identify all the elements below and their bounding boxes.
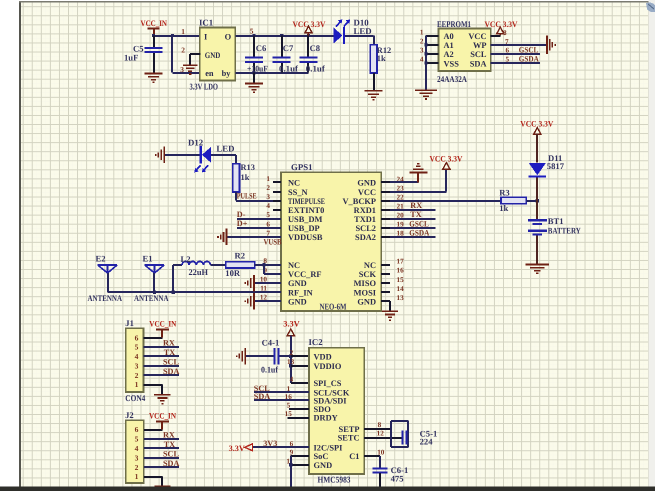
svg-text:USB_DP: USB_DP <box>288 224 320 233</box>
wire VUSB to GPS pin 7 <box>228 236 282 238</box>
svg-text:VCC_IN: VCC_IN <box>149 411 176 420</box>
ground below battery <box>526 264 550 275</box>
wire IC2 SoC pin 9 <box>291 456 309 487</box>
svg-text:GSDA: GSDA <box>519 55 539 64</box>
svg-text:GSDA: GSDA <box>409 228 429 237</box>
ground below GPS pin 13 <box>382 310 398 321</box>
svg-text:VUSB: VUSB <box>264 238 282 247</box>
regulator IC1 3.3V LDO <box>190 18 236 92</box>
capacitor C8 <box>300 36 325 74</box>
pin number 18 (GPS) <box>397 230 405 238</box>
GPS left pin stubs 1-7 <box>273 182 281 237</box>
svg-text:SS_N: SS_N <box>288 188 308 197</box>
svg-text:SDA: SDA <box>163 459 179 468</box>
svg-text:3: 3 <box>180 65 184 74</box>
svg-text:NEO-6M: NEO-6M <box>320 302 348 312</box>
svg-text:VCC_IN: VCC_IN <box>141 19 168 28</box>
net label D+ and wire to GPS pin 6 <box>237 219 281 228</box>
ground at GPS pin 10 (sideways) <box>245 275 282 292</box>
pin number 1 (EEPROM) <box>420 28 424 36</box>
svg-text:15: 15 <box>285 410 293 418</box>
ground below R12 <box>365 90 383 101</box>
svg-text:475: 475 <box>391 474 404 484</box>
pin number 3 (IC1) <box>180 65 184 74</box>
wire R3 to battery node <box>526 199 539 202</box>
ground left of LED D12 (sideways) <box>155 147 165 164</box>
svg-text:IC1: IC1 <box>199 18 213 28</box>
wire EEPROM VCC pin 8 <box>491 35 501 37</box>
wire D10 cathode to R12 <box>345 36 374 45</box>
svg-text:RX: RX <box>163 339 175 348</box>
pin number 1 (GPS) <box>266 175 270 183</box>
wire branch down to IC1 pin 3 (en) <box>171 34 201 73</box>
svg-text:PULSE: PULSE <box>237 191 257 200</box>
svg-text:+10uF: +10uF <box>247 64 268 74</box>
pin number 7 (GPS) <box>266 229 270 237</box>
pin number 14 (GPS) <box>397 285 405 293</box>
svg-text:TX: TX <box>164 348 175 357</box>
wire L2 branch down to RF rail <box>172 265 174 292</box>
svg-text:ANTENNA: ANTENNA <box>88 293 123 303</box>
pin number 24 (GPS) <box>397 175 405 183</box>
svg-text:E1: E1 <box>143 253 153 263</box>
svg-text:D-: D- <box>237 210 246 219</box>
svg-text:WP: WP <box>473 41 487 50</box>
svg-text:LED: LED <box>354 26 372 36</box>
svg-text:SDO: SDO <box>314 405 332 414</box>
pin number 2 (GPS) <box>266 184 270 192</box>
pin number 2 (IC2 VDD) <box>290 349 294 357</box>
svg-text:1uF: 1uF <box>124 52 138 62</box>
svg-text:7: 7 <box>505 38 509 46</box>
GPS module U: GPS1 NEO-6M <box>281 162 381 311</box>
svg-text:17: 17 <box>397 258 405 266</box>
power symbol VCC_IN (J2) <box>149 411 176 429</box>
wire IC1 output rail to LED D10 <box>235 35 333 37</box>
wire IC2 C1 pin 10 <box>364 456 380 468</box>
wire EEPROM WP pin 7 <box>491 44 546 46</box>
svg-text:C8: C8 <box>310 43 321 53</box>
svg-text:3V3: 3V3 <box>263 439 277 448</box>
svg-text:RX: RX <box>163 431 175 440</box>
svg-text:22uH: 22uH <box>189 267 209 277</box>
pin 2 stub of IC1 to ground <box>190 54 201 64</box>
ground below C5 <box>145 73 163 84</box>
svg-text:SoC: SoC <box>314 452 329 461</box>
GPS right pin stubs 24-18 <box>381 182 390 237</box>
connector J1 CON4 <box>125 318 145 403</box>
svg-text:GND: GND <box>314 461 333 470</box>
net label TX and wire (GPS pin 20) <box>390 210 436 219</box>
wire D11 to battery node <box>536 177 538 219</box>
svg-text:VSS: VSS <box>444 59 460 68</box>
GPS right pin stubs 17-13 <box>381 265 390 301</box>
wire GPS pin 22 V_BCKP to R3 <box>390 200 501 202</box>
wire ground to C4-1 <box>246 355 273 357</box>
svg-text:5: 5 <box>506 56 510 64</box>
svg-text:3: 3 <box>420 47 424 55</box>
pin stub DRDY <box>288 417 309 419</box>
net label VUSB <box>264 238 282 247</box>
wire 3.3V to VDDIO pin <box>291 365 309 367</box>
svg-text:VCC: VCC <box>468 32 486 41</box>
net label TX and wire (J1) <box>144 348 179 357</box>
svg-text:C4-1: C4-1 <box>262 337 280 347</box>
svg-text:6: 6 <box>506 46 510 54</box>
svg-text:10R: 10R <box>225 268 241 278</box>
svg-text:1: 1 <box>266 175 270 183</box>
svg-text:MISO: MISO <box>354 279 377 288</box>
pin number 13 (IC2 VDDIO) <box>287 358 295 366</box>
pin number 22 (GPS) <box>397 193 405 201</box>
svg-text:4: 4 <box>135 352 139 361</box>
svg-text:VCC_IN: VCC_IN <box>149 319 176 328</box>
svg-text:10: 10 <box>377 449 385 457</box>
svg-text:DRDY: DRDY <box>314 414 338 423</box>
svg-text:2: 2 <box>181 46 185 55</box>
pin number 3 (GPS) <box>266 193 270 201</box>
junction C7 top <box>280 34 283 37</box>
pin number 5 (IC1 output) <box>250 27 254 36</box>
pin number 8 (GPS) <box>263 257 267 265</box>
svg-text:C1: C1 <box>349 452 359 461</box>
pin number 16 (GPS) <box>397 267 405 275</box>
wire loop around C5-1 <box>391 421 408 447</box>
svg-text:SCL: SCL <box>163 357 179 366</box>
label ANTENNA (E2) <box>88 293 123 303</box>
ground left of C4-1 (sideways) <box>236 348 246 365</box>
EEPROM left pin stubs <box>426 36 439 63</box>
svg-text:1k: 1k <box>241 173 250 182</box>
svg-text:3: 3 <box>266 193 270 201</box>
svg-text:SCK: SCK <box>359 270 377 279</box>
pin number 5 (IC2 SDO) <box>287 401 291 409</box>
pin number 6 (IC2 I2C/SPI) <box>290 440 294 448</box>
pin number 19 (GPS) <box>397 221 405 229</box>
net label SDA and wire (J1) <box>144 367 180 376</box>
capacitor C5 <box>124 36 163 73</box>
svg-text:4: 4 <box>266 202 270 210</box>
svg-text:GND: GND <box>288 297 307 306</box>
svg-text:CON4: CON4 <box>125 393 145 403</box>
svg-text:BATTERY: BATTERY <box>548 225 582 235</box>
sheet border top <box>19 1 649 2</box>
svg-text:SPI_CS: SPI_CS <box>314 379 342 388</box>
LED D10 <box>334 17 372 43</box>
svg-text:SETP: SETP <box>339 425 360 434</box>
pin number 15 (GPS) <box>397 276 405 284</box>
svg-text:NC: NC <box>288 261 300 270</box>
capacitor C7 <box>273 36 299 74</box>
svg-text:3.3V LDO: 3.3V LDO <box>190 82 219 92</box>
svg-text:R13: R13 <box>241 163 255 172</box>
svg-text:GND: GND <box>288 279 307 288</box>
svg-text:SCL: SCL <box>470 50 487 59</box>
svg-text:TXD1: TXD1 <box>354 215 376 224</box>
pin number 21 (GPS) <box>397 203 405 211</box>
net label D- and wire to GPS pin 5 <box>237 210 281 219</box>
wire E2 to RF rail <box>107 273 109 292</box>
net label SDA and wire (J2) <box>144 459 180 468</box>
svg-text:224: 224 <box>420 437 434 447</box>
svg-text:TX: TX <box>410 210 421 219</box>
ground below J2 (clipped) <box>154 485 170 486</box>
pin number 3 (EEPROM) <box>420 47 424 55</box>
net label TX and wire (J2) <box>144 440 179 449</box>
svg-text:3: 3 <box>135 361 139 370</box>
svg-text:NC: NC <box>288 179 300 188</box>
wire VCC_IN rail to IC1 pin 1 <box>154 35 201 37</box>
svg-text:SETC: SETC <box>338 434 360 443</box>
svg-text:R2: R2 <box>235 250 246 260</box>
svg-text:R3: R3 <box>499 187 510 197</box>
svg-text:0.1uf: 0.1uf <box>306 64 325 74</box>
ground at GPS pin 12 (sideways) <box>245 293 282 310</box>
magnetometer U: IC2 HMC5983 <box>309 337 365 484</box>
net label GSDA and wire (GPS pin 18) <box>390 228 436 237</box>
junction C6 top <box>252 34 255 37</box>
svg-text:ANTENNA: ANTENNA <box>134 293 169 303</box>
pin number 15 (IC2 DRDY) <box>285 410 293 418</box>
junction IC2 VDDIO <box>289 364 292 367</box>
svg-text:3.3V: 3.3V <box>283 319 300 328</box>
wire IC2 SETP pin 8 <box>364 428 391 430</box>
svg-text:2: 2 <box>135 463 139 472</box>
svg-text:2: 2 <box>420 38 424 46</box>
power symbol VCC_IN <box>141 19 168 35</box>
power symbol VCC_3.3V (battery) <box>520 119 553 162</box>
net label SDA and wire (IC2) <box>254 392 309 401</box>
svg-text:TIMEPULSE: TIMEPULSE <box>288 197 325 206</box>
power symbol 3.3V (IC2) <box>283 319 300 382</box>
svg-text:1: 1 <box>135 380 139 389</box>
J2 pin stubs <box>144 430 163 477</box>
svg-text:16: 16 <box>397 267 405 275</box>
pin number 9 (GPS) <box>263 266 267 274</box>
junction IC2 VDD <box>289 355 292 358</box>
wire R12 to ground <box>373 73 375 90</box>
svg-text:VCC_RF: VCC_RF <box>288 270 322 279</box>
svg-text:EEPROM1: EEPROM1 <box>437 19 471 29</box>
svg-text:J2: J2 <box>125 410 134 420</box>
svg-text:SCL: SCL <box>163 449 179 458</box>
svg-text:C7: C7 <box>283 43 294 53</box>
svg-text:IC2: IC2 <box>309 337 324 347</box>
svg-text:LED: LED <box>216 144 234 154</box>
svg-text:by: by <box>222 69 232 78</box>
svg-text:VCC: VCC <box>358 188 376 197</box>
svg-text:0.1uf: 0.1uf <box>261 365 278 375</box>
svg-text:GND: GND <box>357 179 376 188</box>
pin number 2 (IC1) <box>181 46 185 55</box>
svg-text:NC: NC <box>364 261 376 270</box>
bottom dark bar <box>0 487 655 491</box>
pin number 4 (IC2 SPI_CS) <box>290 375 294 383</box>
ground below C6 <box>245 73 263 94</box>
battery BT1 <box>528 216 582 235</box>
svg-text:L2: L2 <box>181 254 191 264</box>
wire 3.3V to SPI_CS pin <box>291 382 309 384</box>
svg-text:V_BCKP: V_BCKP <box>343 197 377 206</box>
net label SCL and wire (J1) <box>144 357 180 366</box>
svg-text:15: 15 <box>397 276 405 284</box>
svg-text:I: I <box>204 33 207 42</box>
svg-text:8: 8 <box>503 29 507 37</box>
wire EEPROM SDA pin 5 net GSDA <box>491 55 540 64</box>
pin number 7 (EEPROM) <box>505 38 509 46</box>
svg-text:GND: GND <box>357 297 376 306</box>
inverted ground above GPS pin 24 <box>409 163 427 174</box>
junction C8 top <box>307 34 310 37</box>
svg-text:1: 1 <box>181 27 185 36</box>
svg-text:3.3V: 3.3V <box>229 444 245 453</box>
svg-text:D+: D+ <box>237 219 248 228</box>
GPS left pin stubs 8-12 <box>273 265 281 301</box>
wire IC2 SETC pin 12 <box>364 437 402 439</box>
svg-text:1k: 1k <box>377 54 386 63</box>
RF rail wire to GPS pin 11 RF_IN <box>108 290 282 293</box>
EEPROM U: EEPROM1 24AA32A <box>437 19 491 84</box>
resistor R2 10R <box>225 250 254 278</box>
pin number 16 (IC2 SDA/SDI) <box>285 393 293 401</box>
svg-text:13: 13 <box>397 294 405 302</box>
svg-text:12: 12 <box>377 430 385 438</box>
label ANTENNA (E1) <box>134 293 169 303</box>
svg-text:1: 1 <box>420 28 424 36</box>
pin number 2 (EEPROM) <box>420 38 424 46</box>
svg-text:2: 2 <box>135 371 139 380</box>
svg-text:EXTINT0: EXTINT0 <box>288 206 324 215</box>
svg-text:8: 8 <box>378 421 382 429</box>
pin number 1 (IC1) <box>181 27 185 36</box>
pin number 8 (IC2 SETP) <box>378 421 382 429</box>
svg-text:5: 5 <box>135 435 139 444</box>
pin number 13 (GPS) <box>397 294 405 302</box>
ground below EEPROM bus <box>415 89 437 99</box>
ground at VUSB (sideways) <box>217 229 227 246</box>
svg-text:VDD: VDD <box>314 352 332 361</box>
svg-text:O: O <box>225 33 232 42</box>
ground at IC1 pin 2 <box>183 64 198 74</box>
resistor R13 <box>233 163 255 192</box>
svg-text:SDA: SDA <box>470 59 487 68</box>
pin number 20 (GPS) <box>397 212 405 220</box>
power symbol VCC_3.3V (EEPROM) <box>485 20 518 36</box>
pin number 11 (IC2 GND) <box>286 458 293 466</box>
svg-text:SDA2: SDA2 <box>355 233 376 242</box>
diode D11 5817 <box>529 153 565 177</box>
svg-text:SCL2: SCL2 <box>356 224 376 233</box>
wire R13 to GPS pin 3, net PULSE <box>236 191 281 201</box>
svg-text:MOSI: MOSI <box>354 288 376 297</box>
pin number 12 (GPS) <box>260 294 268 302</box>
wire EEPROM SCL pin 6 net GSCL <box>491 46 540 55</box>
svg-text:RXD1: RXD1 <box>354 206 376 215</box>
junction C6 bottom / ground drop <box>252 71 255 74</box>
svg-text:5: 5 <box>135 343 139 352</box>
resistor R12 <box>370 45 391 73</box>
ground at WP pin (sideways) <box>546 36 556 55</box>
antenna E1 <box>143 253 165 273</box>
svg-text:en: en <box>205 69 214 78</box>
ground below J1 <box>154 394 171 405</box>
svg-text:GSCL: GSCL <box>519 46 539 55</box>
wire GPS pin 24 GND <box>390 173 418 182</box>
svg-text:6: 6 <box>135 425 139 434</box>
inductor L2 22uH <box>173 254 226 277</box>
capacitor C5-1 224 <box>401 428 437 446</box>
svg-text:RX: RX <box>410 201 422 210</box>
svg-text:A0: A0 <box>444 32 454 41</box>
svg-text:D12: D12 <box>188 138 204 148</box>
svg-text:VDDUSB: VDDUSB <box>288 233 323 242</box>
pin number 6 (GPS) <box>266 220 270 228</box>
svg-text:TX: TX <box>164 440 175 449</box>
svg-text:GSCL: GSCL <box>409 219 429 228</box>
svg-text:VCC 3.3V: VCC 3.3V <box>520 119 553 128</box>
svg-text:SDA: SDA <box>254 392 270 401</box>
svg-text:GPS1: GPS1 <box>291 162 313 172</box>
svg-text:3: 3 <box>135 453 139 462</box>
wire E1 to RF rail <box>153 273 155 292</box>
wire battery to ground <box>536 235 538 263</box>
power arrow 3.3V at I2C/SPI, net 3V3 <box>229 439 309 453</box>
svg-text:0.1uf: 0.1uf <box>279 64 298 74</box>
pin stub SDO <box>289 408 309 410</box>
svg-text:2: 2 <box>290 349 294 357</box>
net label RX and wire (J2) <box>144 431 179 440</box>
svg-text:A2: A2 <box>444 50 454 59</box>
svg-text:HMC5983: HMC5983 <box>318 475 352 485</box>
svg-text:4: 4 <box>420 56 424 64</box>
svg-text:4: 4 <box>290 375 294 383</box>
pin number 17 (GPS) <box>397 258 405 266</box>
power symbol VCC_3.3V (GPS) <box>430 154 463 169</box>
pin number 5 (GPS) <box>266 211 270 219</box>
pin number 11 (GPS) <box>260 285 267 293</box>
wire IC1 by-pin bottom rail <box>235 72 308 74</box>
pin number 8 (EEPROM) <box>503 29 507 37</box>
svg-text:RF_IN: RF_IN <box>288 288 313 297</box>
svg-text:SDA: SDA <box>163 367 179 376</box>
svg-text:5: 5 <box>266 211 270 219</box>
net label RX and wire (GPS pin 21) <box>390 201 436 210</box>
net label RX and wire (J1) <box>144 339 179 348</box>
wire R2 to GPS pin 8 and pin 9 <box>255 263 281 274</box>
svg-text:E2: E2 <box>96 253 106 263</box>
svg-text:24AA32A: 24AA32A <box>437 74 468 84</box>
pin number 12 (IC2 SETC) <box>377 430 385 438</box>
svg-text:1: 1 <box>135 472 139 481</box>
sheet border left <box>19 2 21 487</box>
net label SCL and wire (J2) <box>144 449 180 458</box>
wire D12 anode to R13 <box>211 155 236 164</box>
svg-text:GND: GND <box>205 51 221 60</box>
svg-text:6: 6 <box>135 333 139 342</box>
pin number 1 (IC2 SCL/SCK) <box>287 385 291 393</box>
right margin strip <box>649 0 655 487</box>
pin number 10 (GPS) <box>260 275 268 283</box>
wire GPS pin 13 GND to ground <box>389 301 391 310</box>
LED D12 (points left) <box>188 138 234 173</box>
power symbol VCC_3.3V (top) <box>293 20 326 36</box>
svg-text:4: 4 <box>135 444 139 453</box>
wire J1 pin 1 to ground <box>161 385 163 394</box>
svg-text:VDDIO: VDDIO <box>314 362 342 371</box>
antenna E2 <box>96 253 118 273</box>
connector J2 CON4 <box>125 410 144 483</box>
cursor icon top-right <box>646 3 655 13</box>
